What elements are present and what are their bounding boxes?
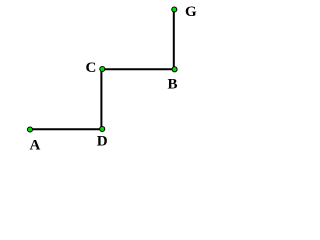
point B <box>172 67 177 72</box>
segment DC <box>100 69 102 129</box>
point D <box>100 126 105 131</box>
point A <box>27 127 32 132</box>
point C <box>100 66 105 71</box>
svg-text:A: A <box>30 138 41 154</box>
svg-text:D: D <box>97 133 108 149</box>
segment BG <box>173 10 175 70</box>
point G <box>172 7 177 12</box>
svg-text:C: C <box>86 60 97 76</box>
segment AD <box>30 128 102 130</box>
segment CB <box>101 68 174 70</box>
svg-text:B: B <box>168 77 178 93</box>
svg-text:G: G <box>185 4 197 20</box>
